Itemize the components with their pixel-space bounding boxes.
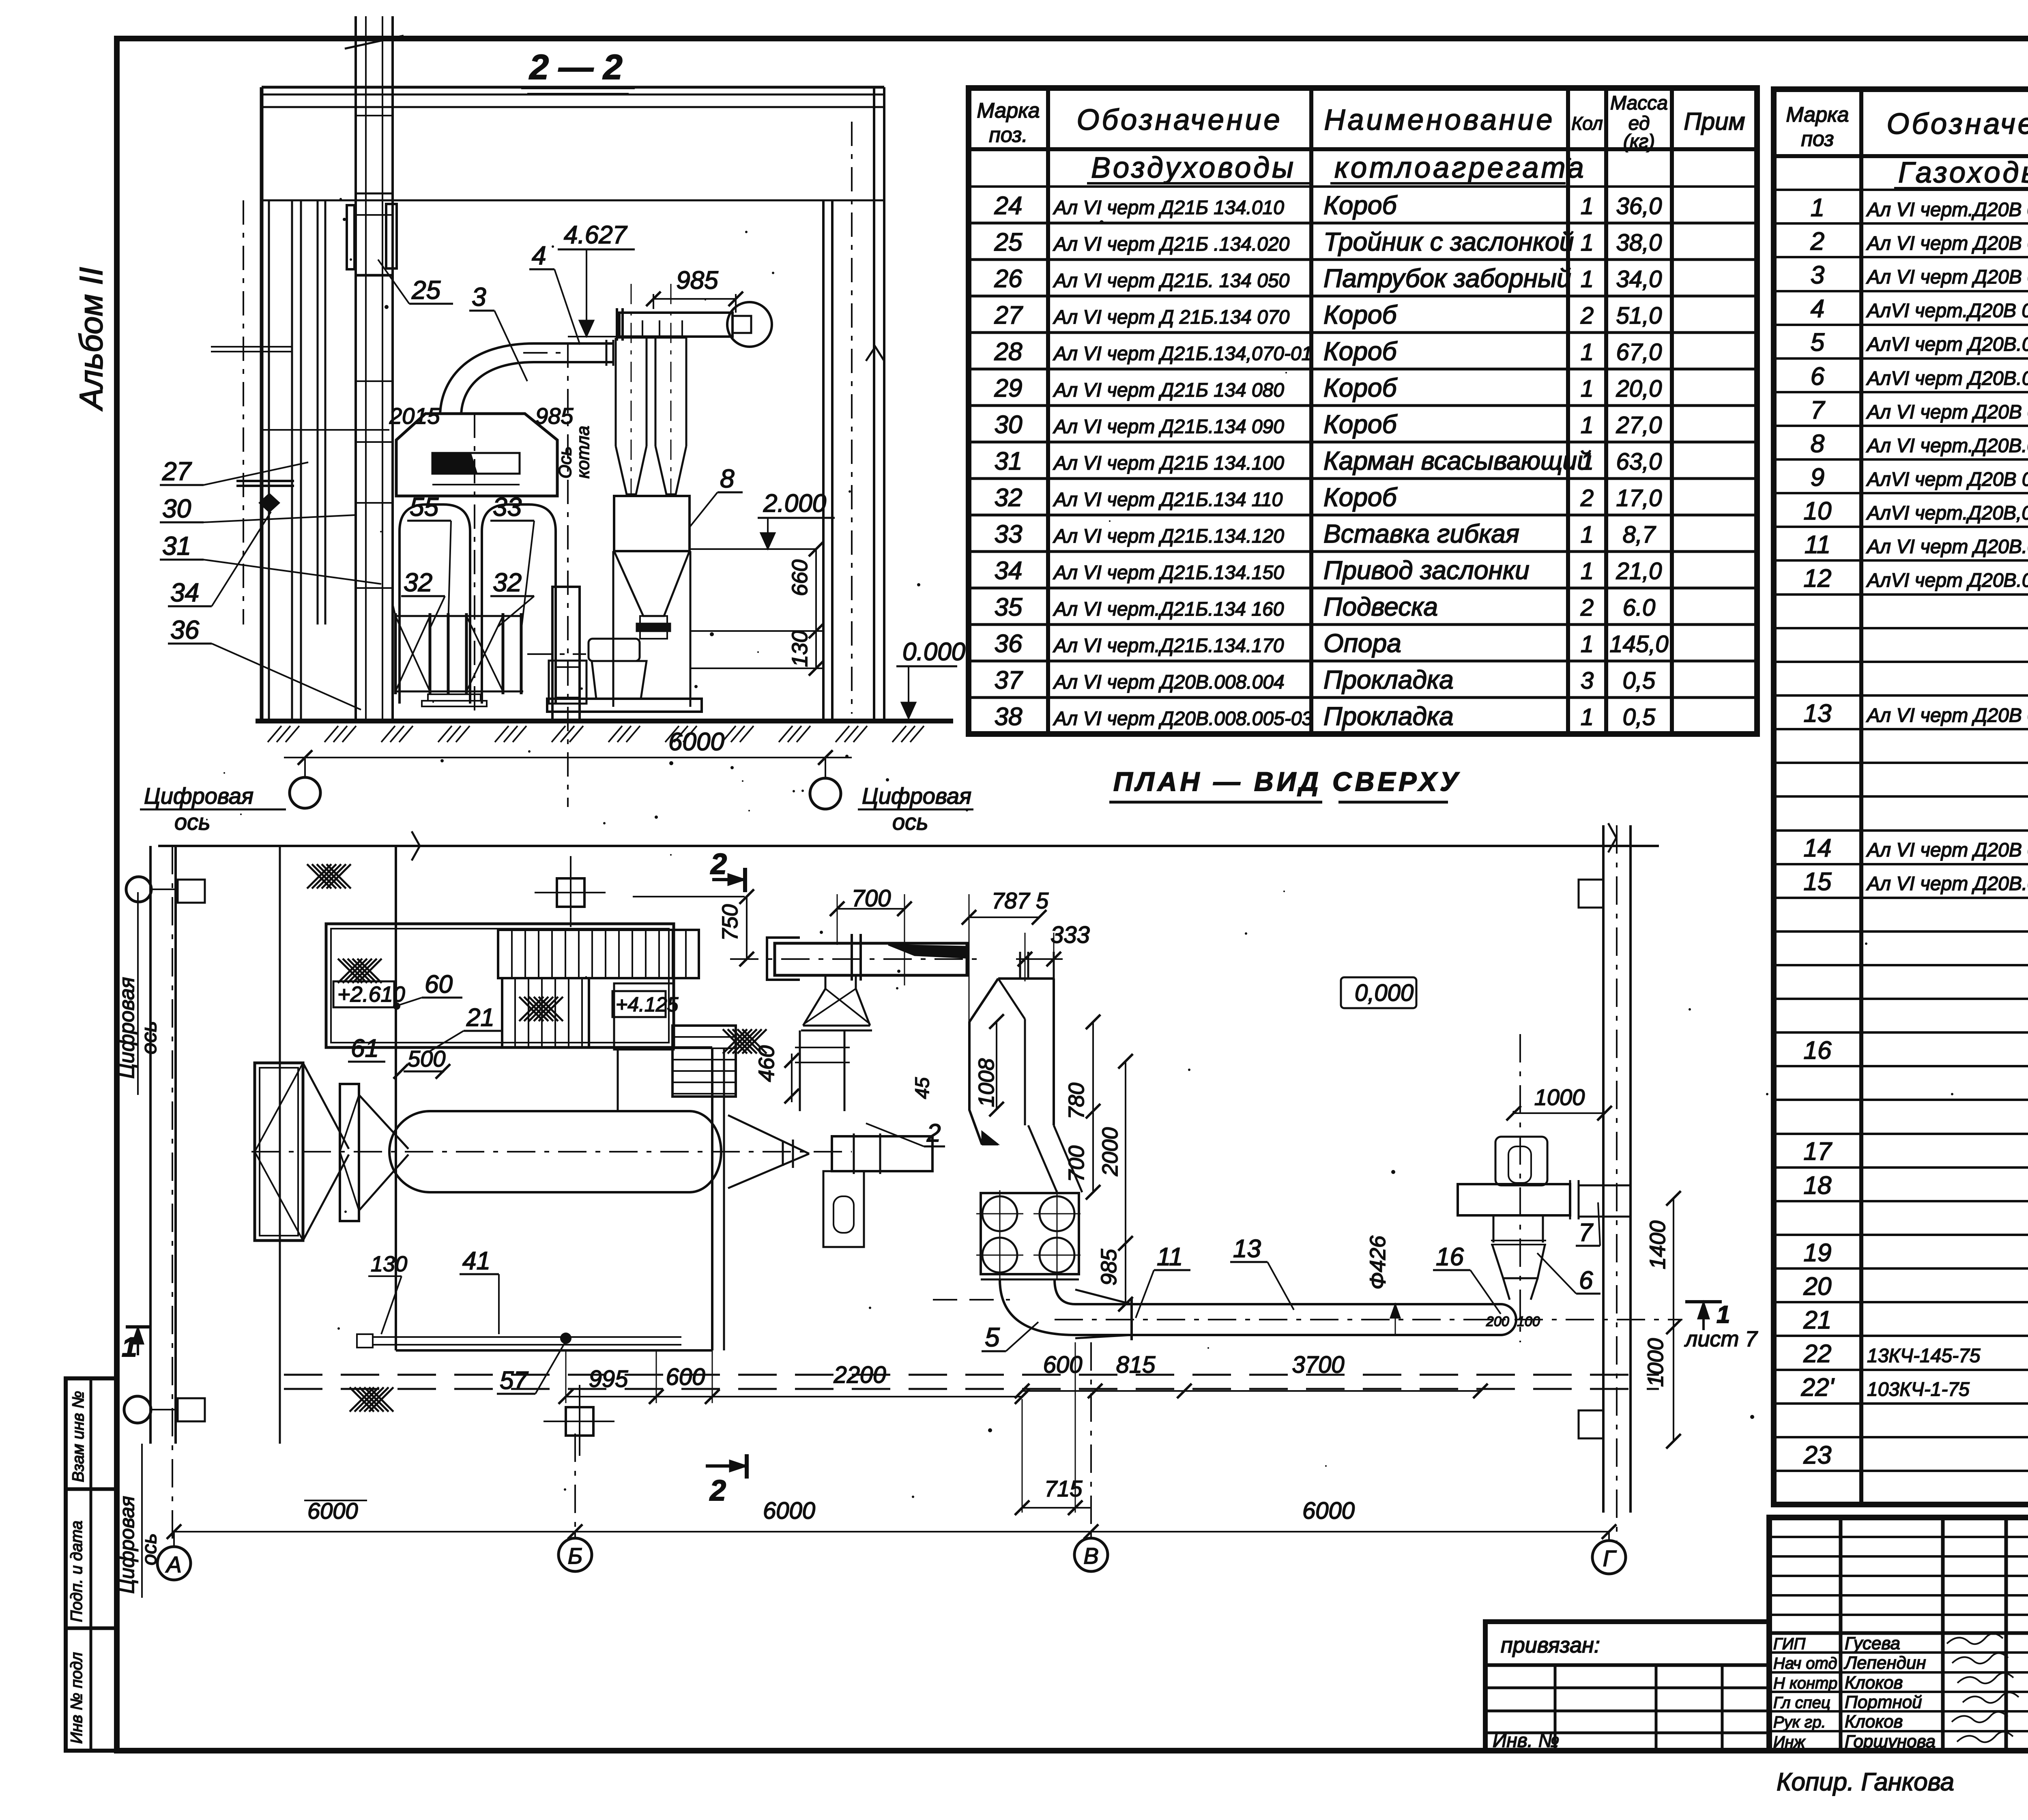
svg-text:Ал VI черт Д20В 008.030: Ал VI черт Д20В 008.030 [1866, 266, 2028, 288]
svg-text:67,0: 67,0 [1616, 339, 1662, 365]
svg-text:27: 27 [162, 457, 192, 486]
svg-text:ось: ось [892, 809, 928, 835]
svg-text:61: 61 [351, 1034, 379, 1062]
svg-text:АлVI черт Д20В.008 050: АлVI черт Д20В.008 050 [1866, 334, 2028, 355]
svg-text:14: 14 [1804, 834, 1832, 862]
svg-text:1: 1 [1581, 449, 1594, 475]
svg-text:5: 5 [1811, 328, 1825, 356]
svg-text:Ал VI черт Д21Б.134.120: Ал VI черт Д21Б.134.120 [1053, 526, 1284, 547]
svg-text:3: 3 [1811, 261, 1824, 289]
svg-text:Карман всасывающий: Карман всасывающий [1323, 446, 1592, 475]
svg-text:2: 2 [1580, 303, 1594, 329]
svg-text:Ал VI черт Д20В 008.004: Ал VI черт Д20В 008.004 [1866, 839, 2028, 861]
svg-text:Инв № подл: Инв № подл [68, 1652, 86, 1744]
section view 2-2 [140, 16, 973, 835]
svg-text:АлVI черт Д20В 008,090-01: АлVI черт Д20В 008,090-01 [1866, 469, 2028, 490]
svg-text:Воздуховоды: Воздуховоды [1091, 152, 1296, 184]
svg-text:21: 21 [1803, 1306, 1832, 1334]
elbow 5 [1000, 1279, 1075, 1335]
svg-text:31: 31 [162, 531, 191, 560]
svg-text:Ал VI черт Д21Б. 134 050: Ал VI черт Д21Б. 134 050 [1053, 270, 1290, 292]
svg-text:1: 1 [1581, 412, 1594, 438]
svg-text:Прим: Прим [1684, 108, 1745, 135]
svg-text:8,7: 8,7 [1623, 522, 1656, 548]
svg-text:1: 1 [1581, 193, 1594, 219]
section marker 1 left [126, 1325, 151, 1329]
svg-text:1: 1 [1581, 230, 1594, 256]
right riser assembly [1495, 1137, 1547, 1185]
svg-text:6: 6 [1579, 1266, 1593, 1294]
svg-text:2: 2 [709, 1474, 726, 1507]
svg-text:17,0: 17,0 [1616, 485, 1662, 511]
fire window [432, 453, 520, 474]
svg-text:поз: поз [1801, 127, 1834, 151]
svg-text:Газоходы: Газоходы [1898, 157, 2028, 189]
svg-text:6000: 6000 [668, 728, 724, 756]
boiler drum [430, 1110, 690, 1112]
svg-text:45: 45 [912, 1077, 933, 1099]
svg-text:4: 4 [1811, 295, 1824, 323]
svg-text:20,0: 20,0 [1616, 376, 1662, 402]
strip 41 [373, 1336, 681, 1338]
svg-text:985: 985 [1097, 1249, 1121, 1286]
four circle box [981, 1193, 1079, 1274]
svg-text:0,5: 0,5 [1623, 667, 1656, 694]
svg-text:715: 715 [1044, 1476, 1083, 1501]
svg-text:Клоков: Клоков [1845, 1712, 1903, 1732]
svg-text:21,0: 21,0 [1616, 558, 1662, 584]
svg-text:780: 780 [1064, 1083, 1089, 1119]
svg-text:Альбом II: Альбом II [73, 267, 109, 411]
svg-text:28: 28 [994, 338, 1023, 366]
svg-text:Взам инв №: Взам инв № [69, 1391, 87, 1482]
svg-text:Клоков: Клоков [1845, 1673, 1903, 1693]
svg-text:Ал VI черт Д21Б.134,070-01: Ал VI черт Д21Б.134,070-01 [1053, 343, 1312, 365]
svg-text:Ал VI черт Д21Б 134.010: Ал VI черт Д21Б 134.010 [1053, 197, 1284, 219]
stairs top [498, 930, 699, 978]
svg-text:16: 16 [1804, 1037, 1832, 1065]
damper box [347, 205, 354, 269]
svg-text:27,0: 27,0 [1616, 412, 1662, 438]
sheet 7 marker [1685, 1300, 1722, 1303]
svg-text:2: 2 [1580, 485, 1594, 511]
svg-text:2015: 2015 [389, 403, 440, 429]
right parts table (Газоходы котлоагрегата) [1774, 89, 2028, 1505]
svg-text:Короб: Короб [1323, 337, 1398, 366]
svg-text:2200: 2200 [833, 1362, 886, 1388]
svg-text:1000: 1000 [1534, 1084, 1585, 1110]
svg-text:Ф426: Ф426 [1366, 1235, 1390, 1290]
svg-text:985: 985 [535, 403, 574, 429]
svg-text:поз.: поз. [989, 123, 1028, 147]
svg-text:13: 13 [1233, 1235, 1261, 1263]
svg-text:Портной: Портной [1845, 1692, 1922, 1712]
svg-text:7: 7 [1811, 396, 1826, 424]
svg-text:Короб: Короб [1323, 483, 1398, 512]
svg-text:Ал VI черт Д21Б 134 080: Ал VI черт Д21Б 134 080 [1053, 380, 1284, 401]
svg-text:6000: 6000 [763, 1498, 815, 1524]
svg-text:22': 22' [1801, 1374, 1835, 1401]
svg-text:5: 5 [985, 1322, 1000, 1352]
svg-text:8: 8 [1811, 430, 1825, 458]
left parts table (Воздуховоды котлоагрегата) [969, 88, 1757, 734]
svg-text:0.000: 0.000 [902, 638, 965, 666]
svg-text:Наименование: Наименование [1324, 104, 1555, 136]
boiler rear diffuser [723, 1047, 725, 1350]
svg-text:Ал VI черт Д20В 008 020: Ал VI черт Д20В 008 020 [1866, 233, 2028, 254]
svg-text:Ал VI черт Д20В.008,005: Ал VI черт Д20В.008,005 [1866, 873, 2028, 895]
svg-text:АлVI черт.Д20В 008.040: АлVI черт.Д20В 008.040 [1866, 300, 2028, 322]
svg-text:4: 4 [532, 241, 546, 270]
svg-text:22: 22 [1803, 1340, 1832, 1368]
svg-text:38,0: 38,0 [1616, 230, 1662, 256]
svg-text:38: 38 [995, 703, 1023, 731]
bottom axes [174, 1531, 1609, 1532]
boiler hood [396, 414, 557, 496]
bottom dims row [566, 1396, 1022, 1397]
svg-text:ось: ось [174, 809, 211, 835]
svg-text:33: 33 [995, 520, 1023, 548]
svg-text:13КЧ-145-75: 13КЧ-145-75 [1867, 1345, 1981, 1367]
svg-text:41: 41 [462, 1247, 490, 1275]
svg-text:35: 35 [995, 593, 1023, 621]
svg-text:Ал VI черт.Д20В.008.080: Ал VI черт.Д20В.008.080 [1866, 435, 2028, 457]
svg-text:1: 1 [1581, 558, 1594, 584]
svg-text:Короб: Короб [1323, 300, 1398, 329]
svg-text:2: 2 [926, 1119, 941, 1147]
svg-text:34,0: 34,0 [1616, 266, 1662, 292]
hopper left [255, 1063, 303, 1241]
svg-text:2000: 2000 [1098, 1127, 1122, 1176]
svg-text:котлоагрегата: котлоагрегата [1334, 152, 1586, 184]
svg-text:500: 500 [408, 1046, 445, 1071]
svg-text:Опора: Опора [1323, 629, 1401, 658]
svg-text:1: 1 [1581, 376, 1594, 402]
photocopy speckles [552, 245, 554, 248]
margin stamp boxes [66, 1378, 117, 1751]
svg-text:130: 130 [371, 1252, 407, 1276]
svg-text:7: 7 [1579, 1219, 1594, 1247]
svg-text:34: 34 [995, 557, 1023, 585]
svg-text:Ал VI черт Д21Б.134.150: Ал VI черт Д21Б.134.150 [1053, 562, 1284, 584]
svg-text:985: 985 [676, 266, 718, 294]
svg-text:36: 36 [170, 615, 200, 644]
svg-text:1: 1 [122, 1332, 137, 1363]
svg-text:1008: 1008 [974, 1058, 999, 1107]
svg-text:17: 17 [1804, 1137, 1833, 1165]
svg-text:Ал VI черт.Д20В 008.010: Ал VI черт.Д20В 008.010 [1866, 199, 2028, 221]
svg-text:Обозначение: Обозначение [1076, 104, 1282, 136]
svg-text:51,0: 51,0 [1616, 303, 1662, 329]
svg-text:1: 1 [1716, 1301, 1730, 1328]
svg-text:23: 23 [1803, 1441, 1832, 1469]
svg-text:Ал VI черт Д21Б 134.100: Ал VI черт Д21Б 134.100 [1053, 453, 1284, 474]
svg-text:Ал VI черт.Д21Б.134.170: Ал VI черт.Д21Б.134.170 [1053, 635, 1284, 657]
svg-text:ГИП: ГИП [1773, 1635, 1806, 1653]
svg-text:700: 700 [852, 885, 891, 912]
svg-text:Короб: Короб [1323, 191, 1398, 220]
svg-text:Ал VI черт Д20В 008.070: Ал VI черт Д20В 008.070 [1866, 401, 2028, 423]
svg-text:1400: 1400 [1646, 1221, 1670, 1269]
cyclone bin [614, 496, 690, 551]
svg-text:Цифровая: Цифровая [116, 1496, 138, 1594]
top tee assembly [775, 943, 967, 975]
svg-text:29: 29 [994, 374, 1023, 402]
svg-text:Б: Б [568, 1543, 582, 1569]
svg-text:1: 1 [1581, 266, 1594, 292]
svg-text:26: 26 [994, 265, 1023, 293]
svg-text:А: А [165, 1552, 181, 1577]
svg-text:Марка: Марка [977, 99, 1040, 122]
angular duct [998, 977, 1054, 980]
svg-text:16: 16 [1436, 1243, 1464, 1271]
svg-text:19: 19 [1804, 1239, 1832, 1267]
svg-text:6000: 6000 [1302, 1498, 1355, 1524]
left axis bubbles [126, 877, 151, 902]
svg-text:Ал VI черт Д 21Б.134 070: Ал VI черт Д 21Б.134 070 [1053, 307, 1290, 328]
svg-text:103КЧ-1-75: 103КЧ-1-75 [1867, 1379, 1970, 1400]
svg-text:Горшунова: Горшунова [1845, 1732, 1936, 1751]
svg-text:Обозначение: Обозначение [1886, 108, 2028, 140]
svg-text:Ал VI черт Д20В.008.004: Ал VI черт Д20В.008.004 [1053, 672, 1285, 693]
svg-text:2.000: 2.000 [763, 489, 826, 517]
svg-text:815: 815 [1116, 1352, 1156, 1378]
svg-text:600: 600 [666, 1364, 705, 1390]
svg-text:Марка: Марка [1786, 103, 1849, 127]
svg-text:Копир. Ганкова: Копир. Ганкова [1777, 1768, 1954, 1796]
svg-text:Ось: Ось [555, 446, 575, 479]
svg-text:3: 3 [472, 282, 486, 311]
svg-text:+4.125: +4.125 [616, 993, 679, 1016]
svg-text:12: 12 [1804, 564, 1832, 592]
svg-text:2: 2 [1580, 595, 1594, 621]
svg-text:36: 36 [995, 630, 1023, 658]
svg-text:Патрубок заборный: Патрубок заборный [1323, 264, 1571, 293]
svg-text:Цифровая: Цифровая [115, 977, 139, 1079]
floor line [256, 719, 953, 723]
svg-text:3: 3 [1581, 667, 1594, 694]
svg-text:6.0: 6.0 [1623, 595, 1656, 621]
svg-text:0,5: 0,5 [1623, 704, 1656, 730]
svg-text:32: 32 [995, 484, 1023, 512]
svg-text:2: 2 [710, 848, 727, 880]
svg-text:Ал VI черт Д20В.008.001: Ал VI черт Д20В.008.001 [1866, 536, 2028, 558]
svg-text:660: 660 [788, 560, 812, 596]
svg-text:Масса: Масса [1610, 92, 1668, 114]
chimney duct 25 [354, 43, 357, 721]
misc fittings [236, 480, 294, 482]
svg-text:30: 30 [162, 494, 191, 523]
svg-text:1: 1 [1811, 194, 1824, 222]
stairs lower [672, 1026, 736, 1097]
svg-text:Ал VI черт.Д21Б.134 160: Ал VI черт.Д21Б.134 160 [1053, 599, 1284, 620]
platform 2610 [326, 924, 674, 1047]
room outline [262, 86, 884, 89]
svg-text:750: 750 [718, 904, 742, 941]
svg-text:25: 25 [994, 228, 1023, 256]
cyclone outlet pipe [619, 313, 733, 337]
svg-text:ось: ось [137, 1021, 161, 1054]
svg-text:600: 600 [1043, 1352, 1083, 1378]
svg-text:34: 34 [170, 578, 199, 607]
svg-text:Ал VI черт Д20В 008.003: Ал VI черт Д20В 008.003 [1866, 705, 2028, 726]
svg-text:8: 8 [720, 464, 735, 493]
pipe f426 [1075, 1303, 1501, 1305]
svg-text:27: 27 [994, 301, 1023, 329]
svg-text:9: 9 [1811, 464, 1824, 491]
привязан block [1485, 1622, 1769, 1751]
svg-text:В: В [1083, 1543, 1098, 1569]
title block [1769, 1517, 2028, 1753]
svg-text:11: 11 [1805, 531, 1830, 559]
svg-text:15: 15 [1804, 868, 1832, 896]
svg-text:Инв. №: Инв. № [1493, 1730, 1559, 1751]
svg-text:33: 33 [493, 492, 522, 522]
svg-text:10: 10 [1804, 497, 1832, 525]
suction duct with braces 31 [393, 604, 395, 616]
svg-text:700: 700 [1064, 1146, 1089, 1182]
dim 6000 below [284, 757, 852, 758]
svg-text:3700: 3700 [1292, 1352, 1344, 1378]
svg-text:АлVI черт Д20В.008.060: АлVI черт Д20В.008.060 [1866, 368, 2028, 389]
svg-text:Ал VI черт Д21Б.134 090: Ал VI черт Д21Б.134 090 [1053, 416, 1284, 438]
svg-text:Привод заслонки: Привод заслонки [1323, 556, 1530, 585]
plan walls [158, 845, 1659, 847]
svg-text:63,0: 63,0 [1616, 449, 1662, 475]
svg-text:1: 1 [1581, 704, 1594, 730]
svg-text:130: 130 [788, 631, 812, 667]
section marker 2 bottom [706, 1464, 747, 1468]
svg-text:Вставка гибкая: Вставка гибкая [1323, 519, 1519, 548]
svg-text:Гусева: Гусева [1845, 1633, 1900, 1653]
svg-text:995: 995 [589, 1366, 629, 1392]
rear duct stub [832, 1136, 932, 1171]
svg-text:Н контр: Н контр [1773, 1674, 1837, 1692]
svg-text:145,0: 145,0 [1609, 631, 1668, 657]
svg-text:1: 1 [1581, 339, 1594, 365]
svg-text:(кг): (кг) [1623, 131, 1655, 152]
cyclones 8 [615, 338, 617, 446]
svg-text:21: 21 [466, 1004, 494, 1032]
svg-text:6: 6 [1811, 363, 1825, 391]
svg-text:18: 18 [1804, 1172, 1832, 1200]
svg-text:АлVI черт.Д20В,008,090-03: АлVI черт.Д20В,008,090-03 [1866, 502, 2028, 524]
svg-text:60: 60 [425, 970, 453, 998]
svg-text:Гл спец: Гл спец [1773, 1694, 1830, 1712]
svg-text:2 — 2: 2 — 2 [528, 48, 622, 87]
svg-text:55: 55 [410, 492, 439, 522]
svg-text:32: 32 [493, 568, 522, 597]
svg-text:котла: котла [573, 426, 593, 479]
dashed rails [284, 1374, 1659, 1376]
svg-text:4.627: 4.627 [564, 221, 628, 249]
svg-text:Короб: Короб [1323, 373, 1398, 402]
svg-text:Подвеска: Подвеска [1323, 592, 1438, 621]
svg-text:1000: 1000 [1643, 1338, 1668, 1387]
svg-text:Короб: Короб [1323, 410, 1398, 439]
svg-text:Цифровая: Цифровая [144, 783, 253, 809]
svg-text:36,0: 36,0 [1616, 193, 1662, 219]
svg-text:Г: Г [1603, 1545, 1617, 1571]
svg-text:Подп. и дата: Подп. и дата [68, 1521, 86, 1622]
svg-text:200: 200 [1486, 1314, 1509, 1329]
svg-text:24: 24 [994, 192, 1023, 220]
svg-text:Тройник с заслонкой: Тройник с заслонкой [1323, 227, 1574, 256]
svg-text:лист 7: лист 7 [1684, 1327, 1758, 1351]
fan and motor [589, 639, 640, 661]
svg-text:333: 333 [1051, 922, 1090, 948]
misc hatch marks [307, 864, 351, 889]
svg-text:ПЛАН — ВИД СВЕРХУ: ПЛАН — ВИД СВЕРХУ [1113, 766, 1461, 796]
boiler body plan [395, 846, 397, 1350]
svg-text:20: 20 [1803, 1273, 1832, 1301]
plan view [115, 766, 1758, 1598]
svg-text:привязан:: привязан: [1501, 1633, 1600, 1657]
svg-text:787 5: 787 5 [992, 888, 1049, 913]
air duct elbow 3/4 [440, 343, 534, 414]
svg-text:25: 25 [411, 275, 441, 305]
svg-text:Прокладка: Прокладка [1323, 702, 1454, 731]
svg-text:11: 11 [1157, 1243, 1183, 1271]
svg-text:Рук гр.: Рук гр. [1773, 1713, 1826, 1731]
svg-text:1: 1 [1581, 631, 1594, 657]
svg-text:Цифровая: Цифровая [862, 783, 971, 809]
svg-text:Инж: Инж [1773, 1733, 1806, 1751]
svg-text:АлVI черт Д20В.008.002: АлVI черт Д20В.008.002 [1866, 570, 2028, 591]
svg-text:Нач отд: Нач отд [1773, 1655, 1837, 1672]
hanger squares [557, 878, 584, 907]
svg-text:32: 32 [404, 568, 432, 597]
svg-text:1: 1 [1581, 522, 1594, 548]
svg-text:Ал VI черт Д20В.008.005-03: Ал VI черт Д20В.008.005-03 [1053, 708, 1313, 730]
0.000 box [1341, 977, 1416, 1008]
svg-text:57: 57 [500, 1367, 528, 1395]
svg-text:Прокладка: Прокладка [1323, 665, 1454, 694]
svg-text:31: 31 [995, 447, 1023, 475]
column hatch boxes [178, 880, 205, 903]
svg-text:30: 30 [995, 411, 1023, 439]
narrow duct [552, 587, 580, 721]
axis circles [290, 777, 320, 808]
svg-text:Лепендин: Лепендин [1843, 1653, 1926, 1673]
svg-text:Ал VI черт Д21Б.134 110: Ал VI черт Д21Б.134 110 [1053, 489, 1283, 511]
svg-text:37: 37 [995, 666, 1023, 694]
svg-text:2: 2 [1810, 227, 1824, 255]
svg-text:6000: 6000 [307, 1498, 358, 1524]
svg-text:13: 13 [1804, 700, 1832, 728]
boiler arches [400, 504, 470, 704]
svg-text:0,000: 0,000 [1355, 980, 1414, 1006]
svg-text:Кол: Кол [1571, 113, 1603, 134]
svg-text:Ал VI черт Д21Б .134.020: Ал VI черт Д21Б .134.020 [1053, 234, 1290, 255]
